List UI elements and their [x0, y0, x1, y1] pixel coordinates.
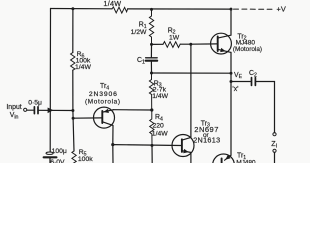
wire top rail right segment — [128, 8, 231, 10]
capacitor C2 — [252, 78, 256, 86]
label R2 — [168, 27, 176, 35]
svg-text:1W: 1W — [169, 34, 180, 41]
label 100k (R5) — [78, 156, 93, 163]
svg-text:100k: 100k — [78, 156, 93, 163]
wire load lower lead — [274, 152, 276, 163]
label Tr4 — [100, 83, 109, 91]
transistor Tr4 emitter with arrow — [103, 109, 114, 113]
wire R2 to node — [180, 43, 191, 45]
wire column down to R5 — [72, 118, 75, 151]
node R1/R2/C1 — [150, 43, 153, 46]
label 'x' — [232, 86, 238, 93]
terminal output lower — [273, 149, 276, 152]
resistor R2 1W — [163, 42, 180, 48]
label R6 — [77, 51, 85, 59]
node R3/R4/Tr4 emitter — [150, 108, 153, 111]
node R4 bottom / driver wire — [151, 144, 154, 147]
label 1/4W (R3) — [152, 93, 168, 100]
resistor R3 2.7k — [149, 73, 153, 110]
wire feedback to VE — [152, 72, 232, 74]
node C1 / R3 / feedback — [150, 72, 153, 75]
label 0.5u (input cap) — [28, 99, 42, 106]
wire R4 column to bottom edge — [151, 145, 153, 163]
terminal output upper — [273, 133, 276, 136]
wire C2 to output corner — [256, 82, 274, 133]
transistor Tr2 base bar — [217, 36, 219, 51]
transistor Tr4 base bar — [101, 111, 103, 123]
svg-text:MJ480: MJ480 — [236, 160, 256, 163]
label C1 — [137, 57, 145, 65]
svg-text:(Motorola): (Motorola) — [85, 99, 121, 106]
transistor Tr4 collector — [103, 122, 113, 145]
label +V — [277, 5, 286, 14]
node top rail / R6 column — [71, 7, 74, 10]
wire dashed to +V — [234, 8, 273, 10]
svg-text:6·0V: 6·0V — [50, 159, 65, 163]
capacitor 0.5u input — [34, 107, 38, 114]
label R1 — [139, 22, 147, 30]
label R3 — [154, 80, 162, 88]
node top rail / R1 — [150, 8, 153, 11]
transistor Tr3 emitter with arrow — [183, 149, 191, 153]
svg-text:1/4W: 1/4W — [152, 131, 168, 138]
label 2N3906 — [89, 91, 118, 98]
label 2.7k (R3) — [153, 87, 167, 94]
node VE feedback — [230, 72, 233, 75]
label Zl — [271, 139, 277, 150]
transistor Tr3 circle — [172, 135, 194, 157]
label 100k (R6) — [76, 57, 91, 64]
svg-text:220: 220 — [153, 122, 165, 129]
label C2 — [249, 70, 257, 78]
wire R6 bottom to input node — [72, 70, 74, 110]
resistor R1 1/2W — [149, 9, 153, 44]
label 1/4W (R6) — [75, 64, 91, 71]
wire node to Tr2 base — [191, 43, 217, 45]
resistor R5 100k — [72, 151, 76, 163]
node top rail / Tr2 collector — [230, 8, 233, 11]
wire column jog to base wire — [72, 111, 74, 119]
node Tr4 collector / wire — [111, 143, 114, 146]
svg-text:R4: R4 — [155, 114, 163, 122]
transistor Tr2 collector — [218, 9, 231, 38]
wire Tr4 emitter to R3/R4 node — [113, 109, 151, 111]
svg-text:1/4W: 1/4W — [152, 93, 168, 100]
label 1/2W (R1) — [131, 29, 147, 36]
svg-text:1/4W: 1/4W — [103, 0, 121, 8]
transistor Tr2 emitter with arrow — [218, 48, 231, 53]
svg-text:C2: C2 — [249, 70, 257, 78]
wire 100u cap lead down — [49, 157, 51, 163]
wire input terminal to cap — [27, 109, 33, 111]
wire Tr2 emitter down to VE — [230, 52, 232, 73]
wire node to R2 — [152, 43, 164, 45]
label (Motorola) Tr2 — [233, 46, 262, 53]
label 100u — [52, 148, 67, 155]
svg-text:C1: C1 — [137, 57, 145, 65]
wire top rail left segment — [51, 8, 113, 10]
svg-text:0·5μ: 0·5μ — [28, 99, 42, 106]
label Input — [6, 104, 21, 111]
wire Tr4 collector column to bottom edge — [112, 145, 114, 164]
svg-text:'x': 'x' — [232, 86, 238, 93]
node input wire / R6-R5 column — [71, 109, 74, 112]
wire x node down to Tr1 — [230, 82, 232, 156]
transistor Tr1 emitter arrow from x line — [225, 155, 231, 160]
svg-text:1/2W: 1/2W — [131, 29, 147, 36]
wire Tr4 collector to Tr3 base — [113, 144, 181, 147]
label Vin — [10, 112, 19, 120]
svg-text:VE: VE — [234, 72, 243, 80]
node base branch — [72, 117, 75, 120]
label 6.0V — [50, 159, 65, 166]
label (Motorola) Tr4 — [85, 99, 121, 106]
transistor Tr1 base bar — [221, 158, 223, 163]
label 1W (R2) — [169, 34, 180, 41]
wire VE to C2 node — [230, 73, 232, 81]
label MJ480 (Tr2) — [236, 40, 256, 47]
resistor R4 220 — [150, 110, 154, 145]
resistor R6 100k 1/4W — [71, 53, 75, 71]
transistor Tr2 circle — [211, 33, 232, 54]
label 2N1613 — [193, 135, 220, 144]
label R4 — [155, 114, 163, 122]
label Tr1 — [237, 152, 246, 160]
svg-text:Vin: Vin — [10, 112, 19, 120]
capacitor C1 top lead — [150, 44, 152, 57]
transistor Tr3 collector — [183, 44, 191, 140]
label 2N697 — [194, 125, 219, 134]
wire Tr3 emitter down — [190, 152, 192, 163]
node R2 / Tr3 collector / Tr2 base — [189, 43, 192, 46]
wire left column (100u filter) — [49, 9, 51, 152]
transistor Tr3 base bar — [181, 139, 183, 152]
capacitor C1 plates — [146, 58, 158, 61]
wire x node to C2 — [231, 81, 250, 83]
label VE — [234, 72, 243, 80]
label 1/4W (top resistor) — [103, 0, 121, 8]
svg-text:Zl: Zl — [271, 139, 277, 150]
wire R6/R5 column upper — [72, 9, 74, 53]
input terminal — [24, 108, 27, 111]
capacitor 100u electrolytic top plate — [46, 152, 53, 154]
wire C1 bottom lead — [150, 62, 152, 73]
svg-text:Input: Input — [6, 104, 21, 111]
node C2 tap — [230, 80, 233, 83]
label 220 (R4) — [153, 122, 165, 129]
transistor Tr4 circle — [94, 107, 115, 128]
svg-text:Tr4: Tr4 — [100, 83, 109, 91]
label Tr2 — [237, 33, 246, 41]
arrow input signal — [48, 108, 54, 114]
svg-text:1/4W: 1/4W — [75, 64, 91, 71]
resistor 1/4W (top rail) — [112, 7, 128, 13]
capacitor 100u bottom plate — [44, 156, 57, 158]
svg-text:100μ: 100μ — [52, 148, 67, 155]
svg-text:(Motorola): (Motorola) — [233, 46, 262, 53]
wire base of Tr4 — [73, 117, 102, 119]
svg-text:2N1613: 2N1613 — [193, 135, 220, 144]
wire input cap to base node — [39, 109, 73, 111]
label R5 — [79, 149, 87, 157]
svg-text:2N3906: 2N3906 — [89, 91, 118, 98]
transistor Tr1 circle — [213, 154, 235, 176]
label or — [203, 132, 210, 139]
label Tr3 — [201, 120, 210, 128]
label MJ480 (Tr1) — [236, 160, 256, 167]
label 1/4W (R4) — [152, 131, 168, 138]
svg-text:+V: +V — [277, 5, 286, 14]
